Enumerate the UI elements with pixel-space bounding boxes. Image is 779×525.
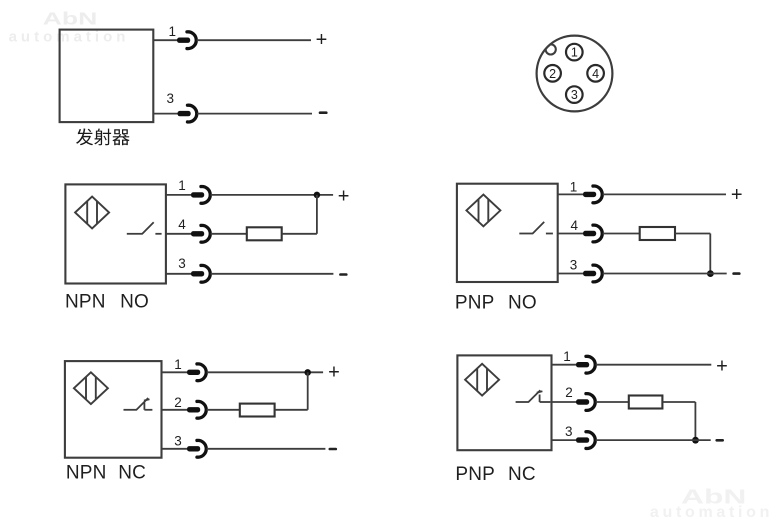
connector plug pin4: [583, 225, 602, 242]
connector plug pin1: [187, 364, 206, 381]
wire resistor to vertical: [662, 401, 695, 403]
svg-text:3: 3: [178, 256, 186, 271]
wire pin3 stub: [162, 448, 188, 450]
wire pin1 to plus: [211, 194, 334, 196]
wire pin1 to plus: [207, 371, 324, 373]
wire pin3 to minus: [603, 273, 727, 275]
svg-text:+: +: [731, 184, 743, 206]
connector plug pin1: [576, 356, 595, 373]
label 发射器: [76, 128, 130, 145]
wire pin1 to plus: [596, 364, 712, 366]
terminal -: [330, 448, 336, 451]
svg-text:4: 4: [570, 218, 578, 233]
svg-text:NPN: NPN: [65, 292, 106, 313]
load resistor: [640, 227, 675, 240]
svg-text:+: +: [338, 185, 350, 207]
svg-text:NC: NC: [508, 464, 536, 485]
wire pin3 to minus: [596, 439, 711, 441]
wire pin3 to minus: [211, 273, 334, 275]
M12 pin 4: [587, 65, 604, 82]
NC switch contact: [124, 398, 153, 410]
terminal -: [717, 439, 723, 442]
svg-text:PNP: PNP: [455, 464, 495, 485]
svg-text:1: 1: [570, 180, 578, 195]
svg-text:2: 2: [549, 67, 556, 81]
load resistor: [629, 396, 663, 409]
svg-text:4: 4: [592, 67, 599, 81]
svg-text:2: 2: [174, 395, 182, 410]
svg-text:1: 1: [178, 178, 186, 193]
svg-text:NC: NC: [118, 463, 146, 484]
wire pin4 to resistor: [211, 233, 247, 235]
svg-text:+: +: [316, 29, 328, 51]
watermark top-left "AbN automation": [9, 9, 130, 46]
M12 connector outer circle: [537, 36, 613, 112]
M12 pin 1: [566, 44, 583, 61]
NPN NC sensor box: [65, 361, 162, 458]
connector plug pin3: [187, 440, 206, 457]
junction dot: [707, 270, 714, 277]
svg-text:+: +: [328, 361, 340, 383]
junction dot: [314, 192, 321, 199]
wire pin1 stub: [552, 364, 577, 366]
connector plug pin1: [191, 187, 210, 204]
wire pin3 to minus: [197, 113, 312, 115]
connector plug pin3: [178, 105, 197, 122]
wire resistor to vertical: [282, 233, 317, 235]
NC switch contact: [516, 390, 551, 402]
wire resistor to vertical: [675, 233, 710, 235]
wire pin4 stub: [166, 233, 191, 235]
terminal -: [320, 111, 326, 114]
wire pin4 to resistor: [603, 233, 640, 235]
svg-text:1: 1: [169, 24, 177, 39]
connector plug pin2: [187, 401, 206, 418]
wire pin1 stub: [166, 194, 191, 196]
wire pin4 stub: [558, 233, 584, 235]
connector plug pin3: [191, 265, 210, 282]
M12 keying notch: [546, 44, 556, 54]
wire pin2 to resistor: [207, 409, 240, 411]
photoelectric sensor symbol: [74, 372, 108, 404]
wire resistor to vertical: [275, 409, 308, 411]
wire pin2 stub: [162, 409, 188, 411]
wire pin3 stub: [552, 439, 577, 441]
load resistor: [247, 227, 282, 240]
transmitter box 发射器: [60, 30, 154, 123]
terminal -: [734, 272, 740, 275]
PNP NC sensor box: [457, 355, 551, 450]
load resistor: [240, 404, 275, 417]
svg-text:3: 3: [565, 424, 573, 439]
svg-text:NPN: NPN: [66, 463, 107, 484]
wire pin1 stub: [558, 193, 584, 195]
wire vertical to pin1 line: [307, 372, 309, 410]
svg-text:3: 3: [167, 91, 175, 106]
terminal -: [340, 273, 346, 276]
svg-text:PNP: PNP: [455, 293, 495, 314]
svg-text:automation: automation: [650, 504, 773, 521]
wire pin1 to plus: [197, 39, 311, 41]
wire vertical to pin3 line: [709, 234, 711, 274]
connector plug pin4: [191, 225, 210, 242]
svg-text:3: 3: [174, 434, 182, 449]
NPN NO sensor box: [65, 184, 165, 283]
svg-text:1: 1: [174, 357, 182, 372]
watermark bottom-right "AbN automation": [650, 485, 773, 521]
svg-text:1: 1: [571, 46, 578, 60]
wire pin3 stub: [153, 113, 178, 115]
wire pin3 stub: [558, 273, 584, 275]
wire pin2 to resistor: [596, 401, 629, 403]
photoelectric sensor symbol: [75, 197, 109, 229]
wire pin1 stub: [153, 39, 178, 41]
connector plug pin1: [177, 32, 196, 49]
wire pin3 to minus: [207, 448, 326, 450]
connector plug pin1: [583, 186, 602, 203]
photoelectric sensor symbol: [465, 364, 499, 396]
connector plug pin3: [583, 265, 602, 282]
wire pin1 stub: [162, 371, 188, 373]
svg-text:+: +: [716, 355, 728, 377]
M12 pin 3: [566, 86, 583, 103]
connector plug pin3: [576, 432, 595, 449]
svg-text:AbN: AbN: [43, 9, 98, 28]
junction dot: [692, 437, 699, 444]
svg-text:3: 3: [570, 257, 578, 272]
svg-text:2: 2: [565, 385, 573, 400]
photoelectric sensor symbol: [466, 195, 500, 227]
wire vertical to pin3 line: [694, 402, 696, 440]
svg-text:NO: NO: [120, 292, 149, 313]
PNP NO sensor box: [457, 184, 558, 282]
svg-text:4: 4: [178, 217, 186, 232]
wire pin3 stub: [166, 273, 191, 275]
connector plug pin2: [576, 394, 595, 411]
M12 pin 2: [544, 65, 561, 82]
junction dot: [304, 369, 311, 376]
NO switch contact: [519, 222, 553, 234]
wire pin2 stub: [552, 401, 577, 403]
svg-text:1: 1: [563, 349, 571, 364]
svg-text:NO: NO: [508, 293, 537, 314]
NO switch contact: [127, 222, 162, 234]
svg-text:3: 3: [571, 88, 578, 102]
wire pin1 to plus: [603, 193, 726, 195]
svg-text:automation: automation: [9, 28, 130, 45]
wire vertical to pin1 line: [316, 195, 318, 234]
